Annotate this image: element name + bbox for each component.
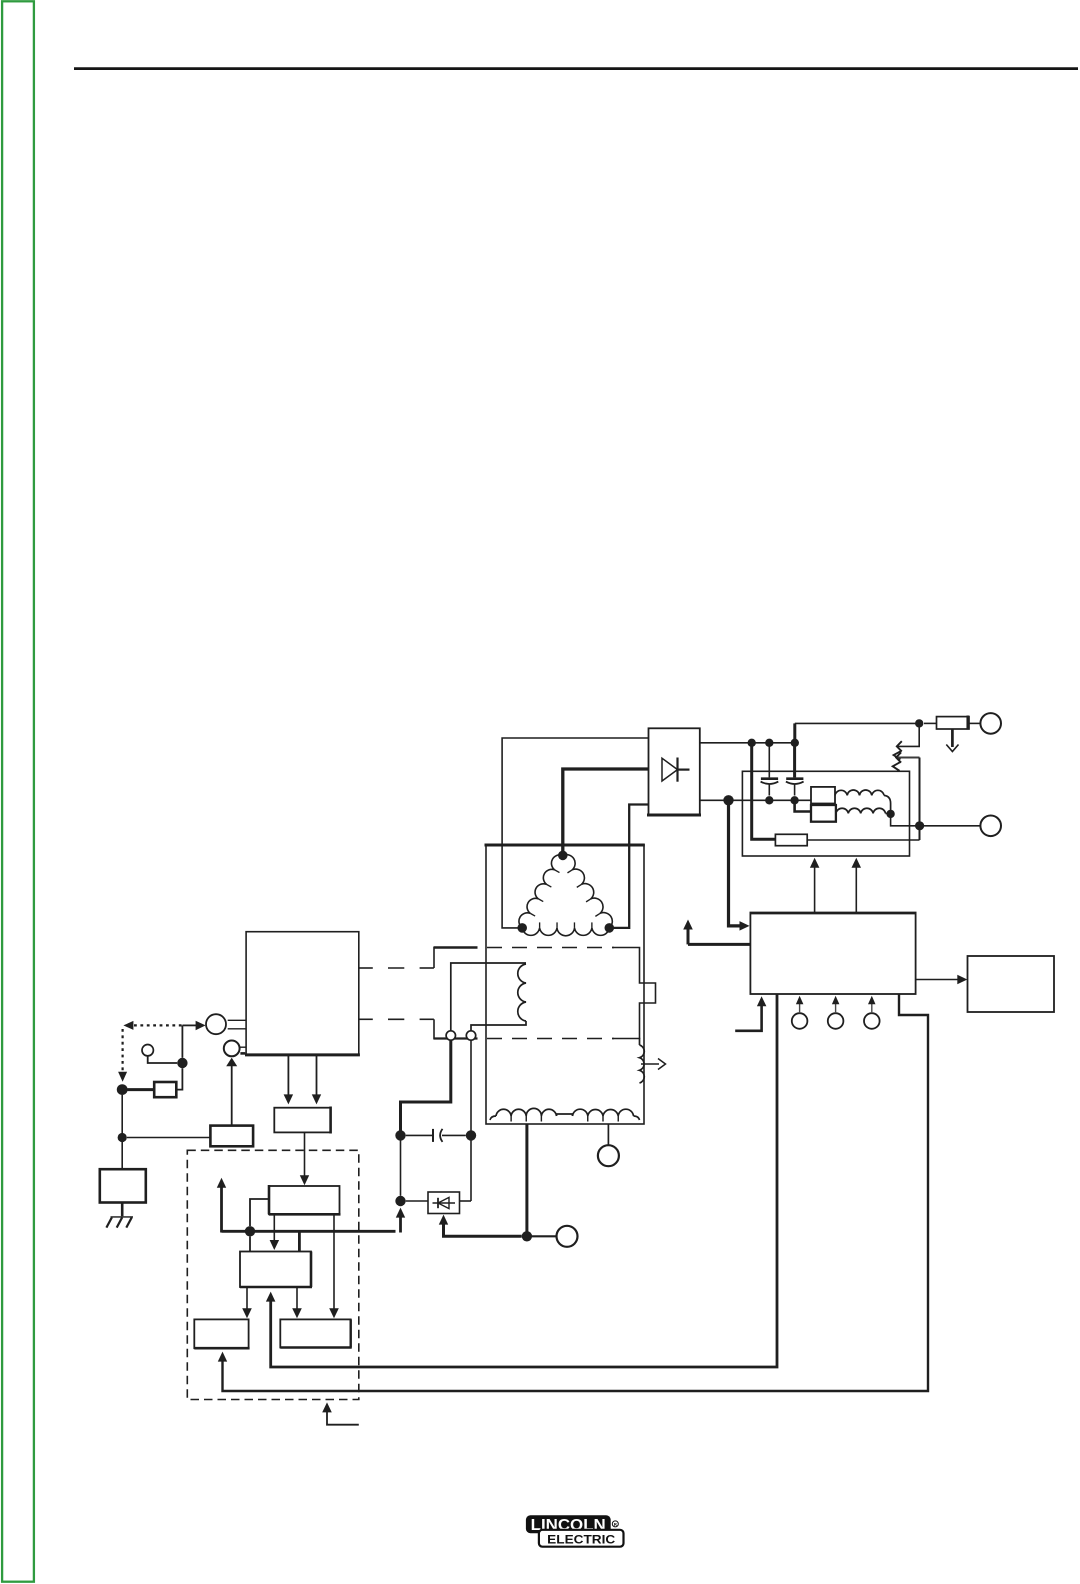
junction positive 2 [765,739,773,747]
wire positive drop to R [752,743,776,840]
primary terminal 1 [446,1031,455,1040]
wire resistor to feedback [807,839,919,841]
positive rail [700,742,795,744]
board block 1 [269,1185,341,1214]
junction positive 3 [791,739,799,747]
wire to work terminal [532,1235,556,1237]
aux winding [640,1039,645,1084]
wire into shunt [924,722,937,724]
board block 2 [240,1252,312,1288]
aux terminal [598,1145,619,1166]
choke L2 [836,808,891,814]
wire diode to rail [460,1200,472,1202]
arrow into S1 [182,1021,205,1030]
aux input arrow [735,996,766,1031]
shunt resistor [937,716,970,730]
PC board dashed outline [187,1150,358,1399]
capacitor C3 [406,1129,466,1142]
snubber left rail upper [400,1141,402,1196]
wire bus to block2 [249,1237,251,1252]
ground symbol [106,1217,133,1228]
reference up arrow [683,920,750,945]
wire phase 1 [502,738,648,928]
mechanical linkage dotted [118,1021,182,1082]
filter resistor [775,834,807,845]
relay contact link [240,1047,247,1053]
board bus wire [222,1231,396,1251]
aux terminal stem [607,1124,609,1145]
diode D2 box [428,1192,460,1214]
top rule [74,67,1078,70]
switch S1 link [228,1020,246,1029]
arrow to diode anode [396,1208,405,1233]
relay CR1 box [210,1126,253,1147]
center tap feed [439,1215,522,1237]
feedback link arrow 1 [894,723,920,759]
wire to line box [121,1142,123,1169]
junction snubber 2 [466,1130,476,1140]
junction center tap [522,1231,532,1241]
thermostat wire [148,1056,178,1063]
current sense terminal 1 [792,996,808,1029]
choke L1 [835,790,891,810]
rectifier diode symbol [662,758,690,782]
aux output arrow [641,1059,666,1070]
shunt sense arrow [946,729,958,752]
gate drive wire from negative rail [729,800,750,930]
junction board bus [245,1226,255,1236]
arrow block1 to block2 [270,1214,280,1250]
firing arrows into filter [810,858,861,913]
relay contact circle [224,1041,240,1057]
current sense terminal 3 [864,996,880,1029]
delta node top [558,851,568,861]
arrow block2 to block4 [292,1287,302,1318]
diode D2 symbol [433,1197,456,1208]
line input box [100,1169,146,1202]
junction S1 [177,1058,187,1068]
wire phase 3 [609,805,648,928]
board output arrow tall [217,1178,226,1233]
junction input 2 [118,1133,127,1142]
wire shunt to terminal [969,722,980,724]
feedback wire left [266,994,777,1367]
primary terminal 2 [466,1031,475,1040]
aux transformer box [274,1107,330,1134]
svg-text:ELECTRIC: ELECTRIC [547,1534,616,1547]
wire input down [121,1095,123,1138]
transformer section line B [434,1037,640,1039]
range link dash 2 [360,1019,435,1039]
arrow block1 to block4 [329,1214,339,1318]
primary wire down thin [470,1040,472,1131]
junction chokes out [886,810,894,818]
transformer T1 enclosure [485,845,645,1124]
arrow block2 to block3 [242,1287,252,1318]
wire input to breaker [128,1088,155,1091]
wire aux to board [300,1132,309,1185]
output filter enclosure [742,771,909,856]
page sidebar (green border) [2,1,34,1581]
junction positive 1 [748,739,756,747]
range switch box [245,932,360,1055]
output terminal negative [980,816,1001,837]
contact box upper [811,787,835,804]
contact box lower [811,805,836,822]
range link dash 1 [360,947,435,969]
negative rail [700,799,811,801]
transformer section line A [434,948,656,1039]
primary wire down thick [401,1040,451,1131]
ground stem [121,1203,124,1218]
work terminal [557,1226,578,1247]
aux supply arrows [284,1055,322,1105]
breaker box [154,1082,176,1097]
wire C2 to contact [795,800,811,811]
wire dot to diode [406,1200,428,1202]
delta winding (3-phase secondary) [519,855,612,936]
switch S1 circle [206,1014,226,1034]
junction diode anode [395,1196,405,1206]
junction output negative [915,821,924,830]
junction shunt [915,719,923,727]
feedback wire right [218,994,928,1391]
thermostat circle [142,1045,153,1056]
board block 3 [194,1319,249,1348]
snubber right rail upper [470,1141,472,1202]
wire chokes to terminal [891,814,981,826]
wire control to remote box [916,975,968,984]
capacitor C2 [786,743,804,796]
remote control box [968,956,1055,1012]
control board box [750,913,917,994]
board block 4 [280,1319,351,1347]
junction input [117,1084,128,1095]
junction negative 3 [790,796,798,804]
wire to relay CR1 [127,1137,211,1139]
wire positive to shunt [795,723,919,744]
junction negative 2 [765,796,773,804]
output terminal positive [980,713,1001,734]
block1 feedback wire [250,1199,269,1226]
delta node bottom-left [517,923,527,933]
feedback link arrow 2 [893,752,920,840]
current sense terminal 2 [828,996,844,1029]
junction negative 1 [723,795,733,805]
delta node bottom-right [605,923,615,933]
center tap wire [525,1124,528,1232]
board enable arrow [322,1402,359,1424]
junction snubber 1 [395,1130,405,1140]
wire S1 down [176,1025,182,1089]
primary winding [451,963,526,1031]
secondary winding [490,1108,640,1121]
rectifier bridge box [647,728,701,815]
wire phase 2 (thick) [563,769,649,855]
Lincoln Electric logo [526,1515,624,1546]
capacitor C1 [761,743,779,796]
relay arrow to contact [226,1058,237,1126]
